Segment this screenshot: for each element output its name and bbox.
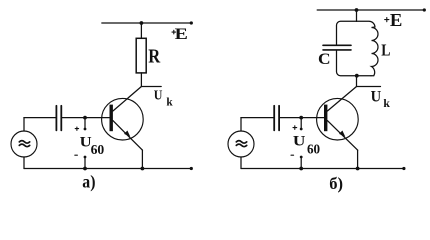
label +E a — [172, 30, 176, 34]
wire bottom ground rail b — [241, 168, 404, 170]
wire source to ground rail b — [240, 157, 242, 169]
wire U60 plus stub a — [84, 118, 86, 129]
node junction top rail / tank — [355, 8, 359, 12]
wire U60 plus stub b — [300, 118, 302, 129]
node +E terminal b — [423, 8, 426, 11]
wire U60 minus stub b — [300, 156, 303, 159]
transistor VT1 emitter line — [113, 121, 142, 151]
plus sign a — [75, 127, 78, 130]
svg-text:U: U — [154, 88, 163, 103]
wire Uk tap b — [357, 86, 381, 88]
wire resistor to collector corner — [140, 73, 142, 87]
svg-text:E: E — [175, 25, 188, 42]
transistor VT2 circle — [317, 98, 359, 140]
wire base a — [62, 117, 109, 119]
transistor VT2 collector line — [327, 87, 356, 112]
wire Uk tap a — [141, 86, 161, 88]
plus sign b — [293, 126, 297, 130]
node emitter/ground b — [356, 167, 360, 171]
wire source to capacitor a — [24, 117, 56, 119]
svg-text:а): а) — [82, 172, 95, 192]
node base tap b — [299, 116, 303, 120]
wire top supply rail a — [102, 22, 192, 24]
svg-text:60: 60 — [307, 142, 320, 157]
node +E terminal a — [190, 21, 193, 24]
resistor R — [136, 38, 146, 73]
node tank bottom junction — [355, 74, 359, 78]
label +E b — [385, 18, 389, 22]
wire source to capacitor b — [241, 117, 273, 119]
capacitor C2 plates b — [274, 106, 279, 131]
wire rail to tank — [356, 10, 358, 21]
source G1 approx symbol — [19, 141, 29, 147]
transistor VT1 circle — [102, 98, 144, 140]
svg-text:U: U — [371, 88, 382, 106]
capacitor C1 plates a — [56, 106, 61, 131]
source G2 circle — [228, 131, 254, 157]
capacitor C plates b — [323, 45, 351, 50]
wire top supply rail b — [317, 9, 425, 11]
svg-text:L: L — [381, 41, 390, 60]
source G2 approx symbol — [236, 141, 246, 147]
transistor VT2 base bar — [324, 105, 327, 132]
svg-text:C: C — [318, 50, 331, 68]
wire tank to collector corner — [356, 76, 358, 87]
transistor VT1 emitter arrow — [124, 131, 130, 137]
transistor VT1 base bar — [110, 105, 113, 132]
svg-text:60: 60 — [91, 142, 105, 157]
svg-text:U: U — [293, 134, 306, 149]
node rail end b — [402, 167, 405, 170]
tank top wire — [337, 21, 357, 44]
transistor VT2 emitter line — [327, 121, 357, 151]
wire emitter to ground rail b — [357, 150, 359, 168]
transistor VT1 collector line — [113, 87, 141, 112]
inductor L coil — [357, 21, 379, 75]
tank left lower wire — [337, 51, 372, 76]
wire source to ground rail a — [23, 157, 25, 169]
wire base b — [280, 117, 324, 119]
svg-text:б): б) — [329, 174, 343, 193]
wire rail to resistor — [140, 23, 142, 38]
svg-text:R: R — [148, 45, 161, 67]
svg-text:E: E — [390, 10, 402, 30]
node emitter/ground a — [141, 167, 145, 171]
wire U60 minus stub a — [84, 156, 87, 159]
node rail end a — [190, 167, 193, 170]
wire emitter to ground rail a — [141, 150, 143, 168]
minus sign a — [75, 154, 78, 156]
svg-text:k: k — [166, 97, 173, 109]
node minus/ground b — [299, 167, 303, 171]
wire bottom ground rail a — [24, 168, 192, 170]
node minus/ground a — [83, 167, 87, 171]
minus sign b — [291, 154, 294, 156]
transistor VT2 emitter arrow — [339, 131, 345, 137]
svg-text:k: k — [383, 97, 390, 110]
node junction top rail / resistor — [140, 21, 144, 25]
node base tap a — [83, 116, 87, 120]
source G1 circle — [11, 131, 37, 157]
